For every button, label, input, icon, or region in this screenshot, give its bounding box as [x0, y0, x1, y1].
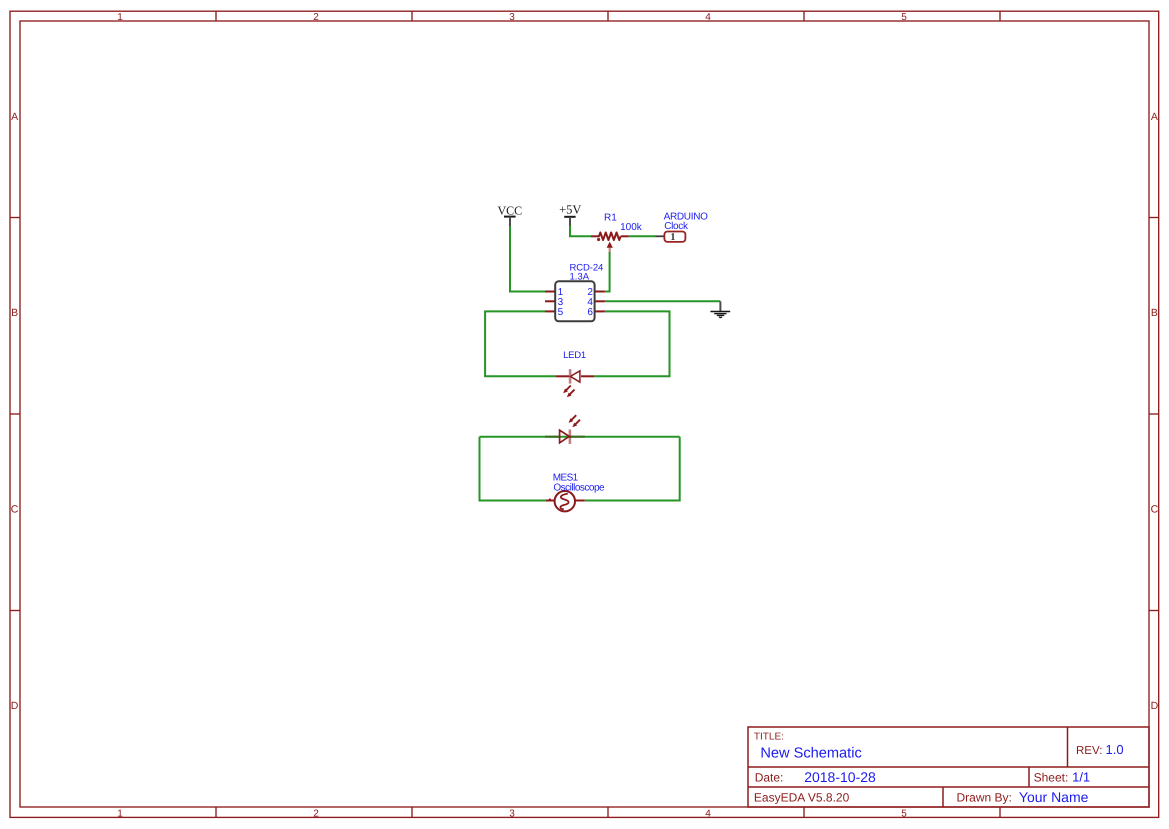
svg-text:5: 5: [901, 808, 907, 819]
svg-text:C: C: [11, 504, 19, 516]
svg-text:B: B: [1151, 307, 1158, 319]
svg-text:Drawn By:: Drawn By:: [957, 791, 1012, 805]
svg-text:+5V: +5V: [559, 203, 581, 217]
svg-text:R1: R1: [604, 213, 617, 224]
svg-text:4: 4: [705, 12, 711, 23]
svg-text:New Schematic: New Schematic: [760, 746, 861, 762]
svg-text:A: A: [1151, 111, 1158, 123]
svg-text:C: C: [1151, 504, 1159, 516]
svg-text:1.3A: 1.3A: [570, 272, 590, 283]
svg-text:1/1: 1/1: [1072, 770, 1090, 785]
svg-text:100k: 100k: [620, 222, 643, 233]
svg-text:3: 3: [509, 12, 515, 23]
svg-text:4: 4: [705, 808, 711, 819]
svg-text:D: D: [1151, 700, 1159, 712]
svg-text:6: 6: [587, 307, 593, 318]
svg-text:Clock: Clock: [664, 221, 689, 232]
svg-text:VCC: VCC: [497, 203, 522, 217]
svg-text:Date:: Date:: [755, 771, 784, 785]
svg-text:3: 3: [509, 808, 515, 819]
svg-text:REV:: REV:: [1076, 745, 1102, 757]
svg-text:2: 2: [313, 808, 319, 819]
svg-text:Sheet:: Sheet:: [1034, 771, 1069, 785]
svg-text:LED1: LED1: [563, 350, 586, 361]
svg-text:A: A: [11, 111, 18, 123]
svg-text:1: 1: [117, 808, 123, 819]
svg-text:Oscilloscope: Oscilloscope: [553, 482, 605, 493]
svg-text:1: 1: [670, 232, 675, 243]
svg-text:EasyEDA V5.8.20: EasyEDA V5.8.20: [754, 791, 850, 805]
svg-text:Your Name: Your Name: [1019, 789, 1089, 805]
svg-text:2018-10-28: 2018-10-28: [804, 769, 876, 785]
svg-text:B: B: [11, 307, 18, 319]
svg-text:D: D: [11, 700, 19, 712]
svg-text:TITLE:: TITLE:: [754, 731, 784, 742]
svg-text:5: 5: [558, 307, 564, 318]
svg-text:5: 5: [901, 12, 907, 23]
svg-text:1.0: 1.0: [1106, 742, 1124, 757]
svg-text:2: 2: [313, 12, 319, 23]
svg-text:1: 1: [117, 12, 123, 23]
